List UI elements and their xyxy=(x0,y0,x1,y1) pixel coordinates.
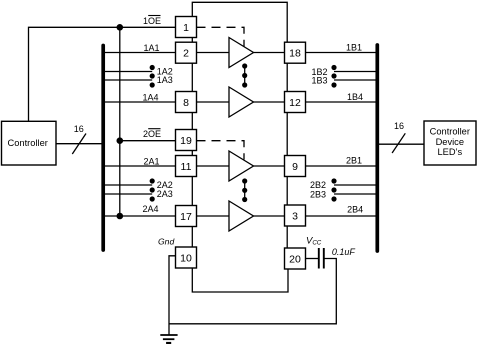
svg-text:1A4: 1A4 xyxy=(142,92,158,102)
pin 17 box xyxy=(176,206,197,227)
wire 1A4 xyxy=(103,101,176,103)
wire 1A3 xyxy=(103,79,152,81)
wire 2A1 buffer input xyxy=(197,165,230,167)
wire pin1-pin2 connector xyxy=(191,38,193,43)
pin 20 box xyxy=(285,248,306,269)
capacitor C1 plates xyxy=(319,248,324,269)
svg-text:16: 16 xyxy=(394,121,404,131)
wire pin11-pin17 connector xyxy=(191,177,193,206)
svg-text:1A1: 1A1 xyxy=(143,43,159,53)
ground symbol xyxy=(160,335,177,343)
wire pin17-pin10 connector xyxy=(191,227,193,248)
wire B-bus to LED box xyxy=(379,143,424,145)
svg-text:3: 3 xyxy=(292,210,298,222)
wire 2A1 xyxy=(103,165,176,167)
wire pin9-pin3 connector xyxy=(286,177,288,206)
node 2OE junction xyxy=(117,137,124,144)
buffer amp B4 xyxy=(229,201,254,231)
pin 18 box xyxy=(285,42,306,63)
svg-text:2B2: 2B2 xyxy=(310,180,326,190)
svg-text:2B4: 2B4 xyxy=(347,205,363,215)
wire pin20 to capacitor xyxy=(306,258,319,260)
dashed OE2 enable line xyxy=(197,141,245,160)
wire pin8-pin19 connector xyxy=(191,113,193,130)
svg-text:20: 20 xyxy=(289,253,301,265)
svg-text:1B4: 1B4 xyxy=(347,92,363,102)
dashed OE1 enable line xyxy=(197,27,245,46)
wire 1B2 xyxy=(334,71,376,73)
wire controller to A-bus xyxy=(56,143,103,145)
pin 8 box xyxy=(176,92,197,113)
node 2A4 junction xyxy=(117,213,124,220)
wire 2A2 xyxy=(103,184,152,186)
svg-text:1B3: 1B3 xyxy=(311,75,327,85)
ellipsis buffers group2 xyxy=(242,178,247,202)
svg-text:19: 19 xyxy=(180,135,192,147)
ellipsis dots 2B group xyxy=(331,178,336,201)
svg-text:16: 16 xyxy=(74,124,84,134)
svg-text:17: 17 xyxy=(180,211,192,223)
svg-text:2B1: 2B1 xyxy=(346,156,362,166)
wire capacitor to ground rail xyxy=(169,259,336,324)
svg-text:0.1uF: 0.1uF xyxy=(332,247,356,257)
svg-text:LED’s: LED’s xyxy=(437,147,462,157)
LED load box xyxy=(424,121,476,165)
wire 2A4 buffer output xyxy=(254,215,285,217)
svg-text:10: 10 xyxy=(180,252,192,264)
controller U-left box xyxy=(2,121,57,165)
wire pin3-pin20 connector xyxy=(286,226,288,248)
wire 1B3 xyxy=(334,79,376,81)
svg-text:2B3: 2B3 xyxy=(310,190,326,200)
bus-width slash right xyxy=(392,133,405,153)
LED load label xyxy=(430,127,470,158)
svg-text:1: 1 xyxy=(183,22,189,34)
wire 2B4 xyxy=(306,215,376,217)
svg-text:2OE: 2OE xyxy=(143,129,161,139)
wire 1A1 buffer input xyxy=(197,52,230,54)
svg-text:11: 11 xyxy=(181,161,192,173)
wire pin18-pin12 connector xyxy=(286,63,288,91)
ellipsis dots 1B group xyxy=(331,65,336,88)
svg-text:Gnd: Gnd xyxy=(158,237,174,247)
wire 2A4 buffer input xyxy=(197,215,230,217)
svg-text:Device: Device xyxy=(436,137,464,147)
svg-text:1A3: 1A3 xyxy=(157,75,173,85)
wire 2B3 xyxy=(334,193,376,195)
bus A-side (thick) xyxy=(101,46,105,251)
wire pin2-pin8 connector xyxy=(191,63,193,91)
pin 11 box xyxy=(176,156,197,177)
svg-text:1OE: 1OE xyxy=(143,16,161,26)
label 1OE xyxy=(143,16,161,26)
ellipsis dots 2A group xyxy=(150,178,155,201)
wire 2OE xyxy=(120,140,176,142)
svg-text:Controller: Controller xyxy=(430,127,470,137)
wire 2B1 xyxy=(306,165,376,167)
wire 1B4 xyxy=(306,101,376,103)
label 2OE xyxy=(143,129,161,139)
wire pin10 to ground stem xyxy=(169,256,176,335)
bus-width slash left xyxy=(72,134,86,155)
wire pin12-pin9 connector xyxy=(286,113,288,156)
wire pin19-pin11 connector xyxy=(191,151,193,156)
ellipsis dots 1A group xyxy=(150,65,155,88)
wire 1A4 buffer output xyxy=(254,101,285,103)
wire pin10 to pin20 bottom loop xyxy=(192,268,288,292)
pin 2 box xyxy=(176,42,197,63)
wire 2A4 xyxy=(103,215,176,217)
pin 12 box xyxy=(285,92,306,113)
wire 1A1 buffer output xyxy=(254,52,285,54)
pin 10 box xyxy=(176,247,197,268)
wire controller to 1OE net xyxy=(29,27,176,121)
buffer amp A4 xyxy=(229,87,254,117)
svg-text:9: 9 xyxy=(292,161,298,173)
wire 2B2 xyxy=(334,184,376,186)
buffer amp B1 xyxy=(229,151,254,181)
svg-text:2A1: 2A1 xyxy=(143,156,159,166)
pin 19 box xyxy=(176,130,197,151)
wire OE vertical net xyxy=(119,27,121,216)
svg-text:2A3: 2A3 xyxy=(157,189,173,199)
svg-text:8: 8 xyxy=(183,97,189,109)
svg-text:1B1: 1B1 xyxy=(346,42,362,52)
ellipsis buffers group1 xyxy=(242,63,247,87)
pin 3 box xyxy=(285,205,306,226)
node 1OE junction xyxy=(117,24,124,31)
svg-text:2A4: 2A4 xyxy=(142,204,158,214)
wire 2A1 buffer output xyxy=(254,165,285,167)
svg-text:18: 18 xyxy=(289,48,301,60)
wire 2A3 xyxy=(103,193,152,195)
wire 1A1 xyxy=(103,52,176,54)
bus B-side (thick) xyxy=(375,45,379,251)
wire 1A4 buffer input xyxy=(197,101,230,103)
wire 1A2 xyxy=(103,71,152,73)
svg-text:12: 12 xyxy=(289,97,301,109)
pin 9 box xyxy=(285,156,306,177)
wire 1B1 xyxy=(306,52,376,54)
svg-text:Controller: Controller xyxy=(8,138,48,148)
wire top feedback 1OE to 18 column xyxy=(192,2,287,42)
pin 1 box xyxy=(176,17,197,38)
svg-text:2: 2 xyxy=(183,48,189,60)
buffer amp A1 xyxy=(229,38,254,68)
